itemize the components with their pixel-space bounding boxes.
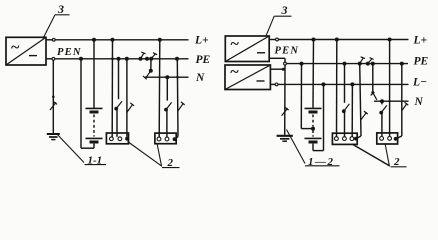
link PE-1 on PE bus xyxy=(139,52,150,61)
ground (earth electrode 1-2) xyxy=(277,136,293,141)
svg-text:3: 3 xyxy=(57,2,64,16)
terminal PEN xyxy=(46,47,82,60)
wire load2 N drop lower xyxy=(381,113,383,137)
svg-text:3: 3 xyxy=(281,3,288,17)
node load2 N junction (right) xyxy=(380,99,384,103)
load box 2b (equipment) xyxy=(155,133,177,144)
load box 2d (equipment right-2) xyxy=(377,133,398,144)
switch S2 (link blade) xyxy=(127,103,134,113)
wire load2 middle lower xyxy=(166,110,168,138)
wire load2 N drop upper xyxy=(381,101,383,104)
node load1 PE junction (right) xyxy=(343,62,347,66)
wire midpoint to PE xyxy=(301,64,313,129)
switch S8 (link blade) xyxy=(402,102,409,111)
svg-text:~: ~ xyxy=(230,36,239,53)
svg-text:PE: PE xyxy=(196,54,211,66)
link PE-2 on PE bus (right) xyxy=(366,58,374,66)
node load2 L+ junction xyxy=(158,38,162,42)
node load2 PE junction (right) xyxy=(400,62,404,66)
link PE-2 on PE bus xyxy=(149,53,157,61)
wire battery negative return xyxy=(81,59,94,148)
node load1 L+ junction xyxy=(111,38,115,42)
wire battery feed xyxy=(93,40,95,108)
wire load1 mid lower (right) xyxy=(344,111,346,136)
svg-text:N: N xyxy=(414,96,424,108)
wire load1 middle upper xyxy=(118,59,120,99)
converter U2 (rectifier box A) xyxy=(225,36,269,62)
label 2 leader (left diagram) xyxy=(128,142,180,170)
wire load2 middle upper xyxy=(166,77,168,100)
node crossing blob on N xyxy=(176,76,179,79)
load box 2c (equipment right-1) xyxy=(332,133,357,144)
svg-text:L−: L− xyxy=(412,76,427,88)
wire load1 4th (PE after link) xyxy=(356,64,361,139)
terminal L+ xyxy=(46,38,55,41)
wire earthing conductor (right) xyxy=(284,69,286,135)
switch S6 (link blade) xyxy=(361,111,368,120)
node load2 L+ junction (right) xyxy=(388,38,392,42)
node load2 right junction on PE xyxy=(175,57,179,61)
svg-text:L+: L+ xyxy=(413,34,428,46)
label 3 leader (right) xyxy=(266,3,292,36)
wire battery negative to L- xyxy=(313,84,324,150)
switch S1 (hinge) xyxy=(114,101,122,110)
link PE-1 on PE bus (right) xyxy=(358,57,365,66)
ground (earth electrode 1-1) xyxy=(47,134,60,140)
converter U3 (rectifier box B) xyxy=(225,64,270,90)
link on earthing conductor (right) xyxy=(282,107,289,116)
terminal L- (right) xyxy=(270,83,278,86)
svg-text:2: 2 xyxy=(393,156,400,168)
wire load2 PE drop xyxy=(396,64,402,139)
svg-text:~: ~ xyxy=(230,64,239,81)
switch S3 (hinge) xyxy=(164,102,172,111)
node battery midpoint xyxy=(311,127,315,131)
link PE-N blade (right) xyxy=(371,91,377,100)
wire load1 right (PE) xyxy=(126,59,128,137)
wire load1 middle lower xyxy=(116,109,118,137)
wire N bus xyxy=(145,76,189,78)
wire PE bus xyxy=(55,58,189,60)
link on earthing conductor xyxy=(50,101,57,110)
node battery return junction on PE xyxy=(79,57,83,61)
node PE-N stub junction xyxy=(371,62,375,66)
wire PE bus (right) xyxy=(286,63,408,65)
node load1 L+ junction (right) xyxy=(335,38,339,42)
terminal PEN (right, midpoint) xyxy=(269,46,299,71)
node load1 mid junction on PE xyxy=(117,57,121,61)
label 1-2 leader xyxy=(287,130,340,168)
converter U1 (rectifier box) xyxy=(6,37,46,65)
label 2 leader (right diagram) xyxy=(352,144,407,168)
svg-text:N: N xyxy=(195,72,205,84)
wire load1 L- drop xyxy=(351,84,353,136)
wire battery feed (right) xyxy=(312,40,315,108)
node battery + junction (right) xyxy=(312,38,316,42)
node load2 mid junction on N xyxy=(165,75,169,79)
wire load1 mid upper (right) xyxy=(344,64,346,103)
link PE-N (blade) xyxy=(143,69,153,80)
svg-text:PEN: PEN xyxy=(57,47,82,58)
switch S7 (hinge) xyxy=(379,105,386,114)
node battery + junction on L+ xyxy=(92,38,96,42)
battery GB1 xyxy=(86,108,103,142)
node load1 L- junction xyxy=(350,82,354,86)
wire L- bus xyxy=(278,83,409,85)
label 1-1 leader xyxy=(58,135,106,167)
node battery negative junction on L- xyxy=(322,82,326,86)
svg-text:1—2: 1—2 xyxy=(308,156,335,168)
terminal L+ (right) xyxy=(269,38,278,41)
battery GB2 upper cell xyxy=(305,108,322,126)
svg-text:1-1: 1-1 xyxy=(88,155,103,167)
svg-text:~: ~ xyxy=(11,39,20,56)
switch S4 (link blade) xyxy=(178,102,185,111)
node crossing blob on N (right) xyxy=(388,100,390,102)
wire PE to N stub xyxy=(150,59,152,71)
svg-text:PE: PE xyxy=(414,56,429,68)
switch S5 (hinge) xyxy=(342,104,350,113)
wire load1 left L+ (right) xyxy=(336,40,338,137)
svg-text:PEN: PEN xyxy=(275,46,300,57)
wire earthing conductor xyxy=(52,60,55,134)
svg-text:2: 2 xyxy=(167,157,174,169)
label 3 leader xyxy=(43,2,70,39)
wire PE to N stub (right) xyxy=(372,64,374,93)
svg-text:L+: L+ xyxy=(194,35,209,47)
wire load2 right (PE drop) xyxy=(175,59,178,139)
wire L+ bus (right) xyxy=(278,39,408,41)
wire L+ bus xyxy=(55,39,188,41)
node load1 right junction on PE xyxy=(125,57,129,61)
node crossing blob on PE xyxy=(111,57,114,60)
wire load1 left (L+) xyxy=(111,40,113,137)
wire load2 L+ drop xyxy=(389,40,391,137)
wire N bus (right) xyxy=(374,100,409,102)
node midpoint junction on PE xyxy=(300,62,304,66)
wire load2 left (L+) xyxy=(158,40,161,138)
load box 2a (equipment) xyxy=(106,133,128,144)
battery GB2 lower cell xyxy=(305,130,322,142)
